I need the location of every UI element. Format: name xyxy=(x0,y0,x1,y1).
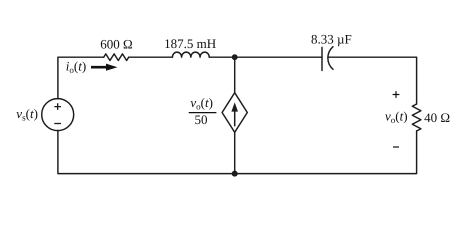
dependent current source U1 diamond xyxy=(222,93,247,133)
svg-text:vs(t): vs(t) xyxy=(16,106,38,122)
voltage source VS circle xyxy=(42,99,74,131)
wire inductor to node A xyxy=(209,56,234,58)
label minus polarity of vo xyxy=(393,146,399,148)
voltage source VS minus sign xyxy=(54,123,61,125)
label plus polarity of vo xyxy=(393,91,400,98)
dependent source U1 arrow xyxy=(231,102,238,126)
svg-text:50: 50 xyxy=(195,112,208,127)
svg-text:40 Ω: 40 Ω xyxy=(424,110,450,125)
wire node A to capacitor xyxy=(235,56,322,58)
svg-text:187.5 mH: 187.5 mH xyxy=(164,36,216,51)
svg-text:8.33 µF: 8.33 µF xyxy=(311,32,352,47)
current arrow for io(t) xyxy=(91,64,117,71)
voltage source VS plus sign xyxy=(54,103,61,110)
wire from source top to resistor R1 (top-left corner) xyxy=(58,57,104,98)
wire 40 ohm to bottom rail and back to source xyxy=(58,130,417,173)
wire resistor to inductor xyxy=(129,56,173,58)
capacitor C1 left plate xyxy=(321,47,323,70)
svg-text:600 Ω: 600 Ω xyxy=(100,37,132,52)
inductor 187.5 mH xyxy=(172,52,209,57)
resistor 40 ohm xyxy=(412,104,421,131)
label vo(t)/50 fraction bar xyxy=(189,112,217,114)
wire node A down to dependent source xyxy=(234,57,236,92)
node B junction dot xyxy=(232,171,238,177)
svg-text:io(t): io(t) xyxy=(66,58,86,74)
capacitor C1 right curved plate xyxy=(328,47,333,70)
wire dependent source to bottom node B xyxy=(234,132,236,173)
node A junction dot xyxy=(232,54,238,60)
resistor 600 ohm xyxy=(104,54,129,61)
svg-text:vo(t): vo(t) xyxy=(385,109,408,125)
wire capacitor to 40 ohm resistor (top-right corner) xyxy=(328,57,417,104)
svg-text:vo(t): vo(t) xyxy=(190,95,213,111)
